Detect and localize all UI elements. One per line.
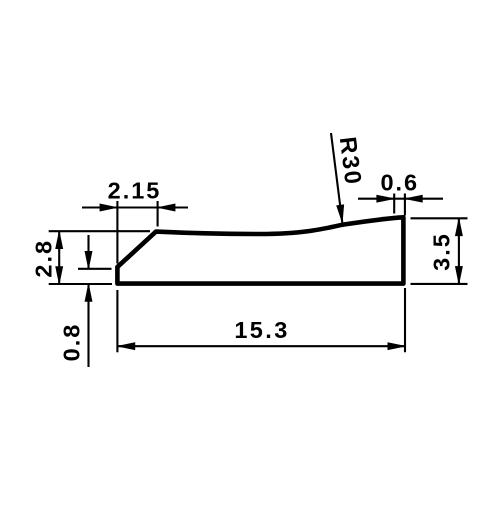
- dimension 15.3: dimension line: [117, 345, 405, 347]
- dimension 2.8: top extension line: [49, 230, 150, 232]
- dimension 0.6: left extension line: [393, 194, 395, 214]
- dimension 15.3: right extension line: [404, 288, 406, 352]
- dimension 0.8: upper arrowhead pointing down: [85, 251, 92, 268]
- radius leader R30: arrowhead: [337, 205, 344, 223]
- dimension 0.6: left arrowhead pointing right: [377, 195, 395, 202]
- dimension 0.6: right arrowhead pointing left: [405, 195, 423, 202]
- dimension 2.8: bottom arrowhead: [56, 267, 63, 285]
- svg-text:0.6: 0.6: [380, 170, 419, 196]
- dimension 2.15: right extension line: [157, 201, 159, 227]
- dimension 0.6: right extension line: [404, 194, 406, 216]
- svg-text:3.5: 3.5: [429, 232, 455, 271]
- dimension 15.3: right arrowhead: [388, 343, 406, 350]
- dimension 0.8: lower dimension line segment: [87, 284, 89, 367]
- dimension 2.15: dimension line: [82, 206, 188, 208]
- dimension 2.8: bottom extension line: [49, 283, 112, 285]
- dimension 3.5: top extension line: [411, 217, 468, 219]
- dimension 0.8: upper dimension line segment: [87, 235, 89, 269]
- dimension 15.3: left arrowhead: [117, 343, 134, 350]
- dimension 0.8: lower arrowhead pointing up: [85, 284, 92, 302]
- svg-text:0.8: 0.8: [58, 323, 84, 362]
- profile outline: [117, 217, 403, 283]
- svg-text:2.8: 2.8: [31, 239, 57, 278]
- radius leader R30: leader line: [331, 133, 342, 223]
- dimension 0.8: middle extension line: [78, 268, 112, 270]
- dimension 3.5: dimension line: [458, 218, 460, 284]
- dimension 3.5: bottom extension line: [411, 283, 468, 285]
- dimension 2.15: left extension line: [116, 201, 118, 264]
- dimension 3.5: top arrowhead: [455, 218, 462, 236]
- dimension 2.8: dimension line: [58, 231, 60, 284]
- dimension 2.15: right arrowhead: [158, 204, 176, 211]
- dimension 0.6: dimension line: [358, 198, 443, 200]
- dimension 2.8: top arrowhead: [56, 231, 63, 249]
- svg-text:15.3: 15.3: [234, 317, 289, 343]
- dimension 3.5: bottom arrowhead: [455, 266, 462, 284]
- dimension 15.3: left extension line: [116, 290, 118, 352]
- svg-text:2.15: 2.15: [108, 178, 162, 204]
- dimension 2.15: left arrowhead: [100, 204, 118, 211]
